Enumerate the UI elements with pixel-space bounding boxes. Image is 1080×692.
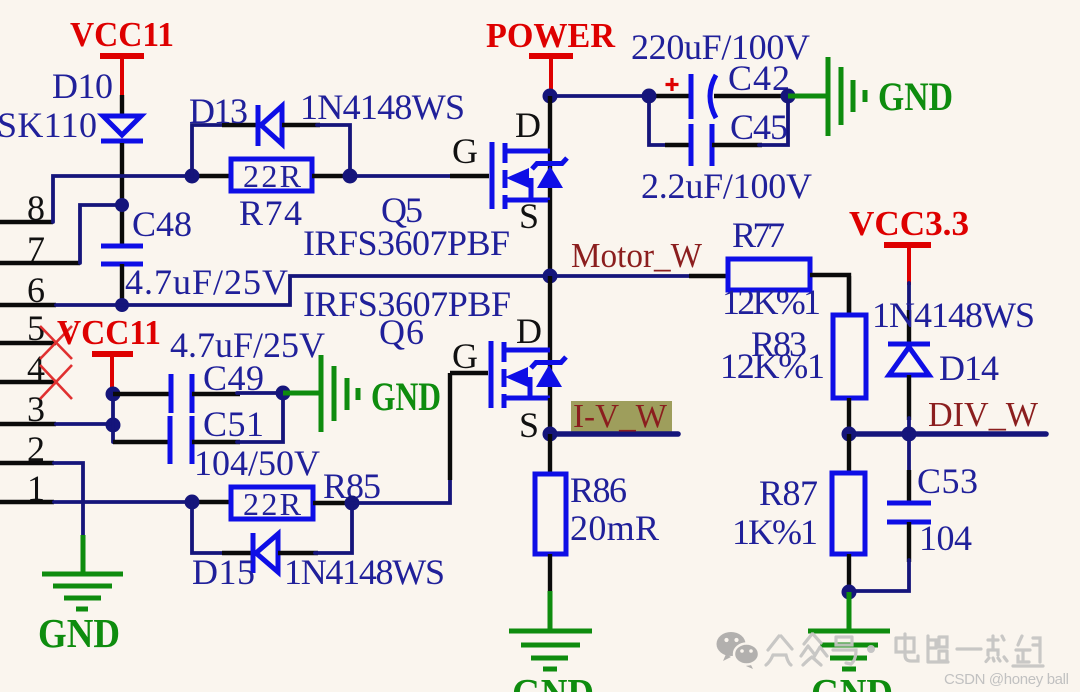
junction R85 right / D15 [345,496,360,511]
svg-text:Motor_W: Motor_W [571,236,702,275]
capacitor C45 2.2uF/100V [641,96,812,206]
svg-text:GND: GND [811,670,893,692]
svg-text:22R: 22R [243,158,302,194]
mosfet Q5 IRFS3607PBF [303,105,567,263]
svg-text:C42: C42 [728,58,790,98]
svg-text:VCC3.3: VCC3.3 [849,204,969,243]
diode D14 1N4148WS [872,283,1035,434]
svg-text:C53: C53 [917,461,978,501]
power symbol VCC11 top [70,15,174,95]
net label DIV_W [849,395,1046,434]
svg-text:104: 104 [919,518,972,558]
svg-text:GND: GND [512,670,594,692]
wire R74 junction to Q5 gate [350,174,489,178]
svg-text:CSDN @honey ball: CSDN @honey ball [944,671,1069,688]
wire POWER rail to C42 [550,94,691,98]
wire Q5 source to Motor node [548,200,552,276]
wire pin2 to ground [54,463,83,574]
resistor R86 20mR [535,470,659,554]
junction pin3 / C51 [106,418,121,433]
svg-text:4.7uF/25V: 4.7uF/25V [125,262,288,302]
resistor R77 12K%1 [722,215,849,322]
svg-text:7: 7 [27,229,45,269]
svg-text:GND: GND [371,374,441,419]
svg-text:POWER: POWER [486,16,616,55]
power symbol POWER [486,16,616,95]
junction POWER [543,89,558,104]
junction R85 left / D15 [185,495,200,510]
wire to ground bottom right [847,592,852,631]
junction boot rail / D13 left [185,169,200,184]
watermark wechat icon [717,632,760,669]
connector pin 8 [0,188,53,228]
resistor R87 1K%1 [732,434,865,592]
mosfet Q6 IRFS3607PBF [303,284,566,445]
svg-text:DIV_W: DIV_W [928,395,1038,434]
svg-text:C49: C49 [203,358,264,398]
connector pin 6 [0,270,56,310]
junction C48 top [115,198,129,212]
connector pin 5 [0,308,56,348]
svg-text:104/50V: 104/50V [194,443,320,483]
svg-text:D: D [516,311,542,351]
connector pin 3 [0,389,56,429]
svg-text:VCC11: VCC11 [57,313,161,352]
connector pin 1 [0,468,54,508]
ground GND bottom left [38,574,123,656]
junction C42 left [642,89,657,104]
ground GND bottom center [509,631,594,692]
ground GND bottom right [808,631,893,692]
power symbol VCC11 mid [57,313,161,394]
svg-text:1K%1: 1K%1 [732,512,818,552]
wire to R86 [548,434,552,474]
resistor R83 12K%1 [720,315,866,398]
svg-text:6: 6 [27,270,45,310]
wire pin3 to C51 [56,394,113,442]
svg-text:SK110: SK110 [0,105,97,145]
svg-text:1N4148WS: 1N4148WS [284,552,445,592]
svg-text:D10: D10 [52,66,113,106]
resistor R74 22R [231,158,312,233]
resistor R85 22R [231,466,381,522]
wire Q6 source to I-V node [548,398,552,434]
ground GND mid left [283,355,441,432]
junction C49/C51 right [276,386,291,401]
svg-text:S: S [519,196,539,236]
svg-text:22R: 22R [243,486,302,522]
capacitor C49 4.7uF/25V [113,325,325,413]
svg-text:12K%1: 12K%1 [720,346,825,386]
svg-text:R86: R86 [570,470,627,510]
wire R74 right to junction [312,174,350,178]
connector pin 4 [0,348,56,388]
wire R86 to ground [548,554,552,631]
junction C42 right / GND [781,89,796,104]
svg-text:D15: D15 [192,552,255,592]
svg-text:C48: C48 [132,204,192,244]
svg-text:IRFS3607PBF: IRFS3607PBF [303,284,511,324]
wire R83 to DIV node [847,398,851,434]
capacitor C51 104/50V [113,393,320,483]
ground GND top right [788,57,953,136]
wire pin7 to C48 top [80,205,118,263]
wire R85 to Q6 gate [352,373,488,503]
svg-text:D13: D13 [189,91,248,131]
junction DIV right [902,427,917,442]
svg-text:S: S [519,405,539,445]
svg-text:G: G [452,131,478,171]
wire pin8 to boot rail [53,176,192,222]
svg-text:C51: C51 [203,404,264,444]
no-connect X on pin 4 [40,365,72,399]
capacitor C53 104 [849,434,978,591]
wire pin6 to Motor node [56,276,546,305]
diode D13 1N4148WS bypass [189,87,465,176]
svg-text:20mR: 20mR [570,508,659,548]
svg-text:IRFS3607PBF: IRFS3607PBF [303,223,510,263]
junction R87/C53 bottom [842,585,857,600]
svg-text:R74: R74 [239,193,302,233]
svg-text:R77: R77 [732,215,785,255]
svg-text:I-V_W: I-V_W [573,398,668,435]
svg-text:C45: C45 [730,107,788,147]
svg-text:D14: D14 [939,348,999,388]
junction C48 bottom [115,298,129,312]
wire pin1 to R85 [54,500,231,504]
watermark dot separator [867,645,875,653]
no-connect X on pin 5 [40,326,72,359]
wire boot rail to R74 [192,174,231,178]
junction VCC11 / C49 [106,387,121,402]
net label Motor_W [550,236,728,276]
wire R85 right [313,501,352,505]
diode D15 1N4148WS bypass [192,502,445,592]
svg-text:VCC11: VCC11 [70,15,174,54]
junction DIV left [842,427,857,442]
junction Motor_W node [543,269,558,284]
svg-text:G: G [452,336,478,376]
diode D10 (SK110) [0,66,143,205]
svg-text:R87: R87 [759,473,818,513]
wire R77 to R83 [847,276,851,315]
wire Q6 drain [548,276,552,398]
svg-text:8: 8 [27,188,45,228]
connector pin 7 [0,229,80,269]
svg-text:12K%1: 12K%1 [722,282,821,322]
svg-text:GND: GND [38,610,120,656]
svg-text:1N4148WS: 1N4148WS [872,295,1035,335]
capacitor C48 4.7uF/25V [101,204,288,305]
capacitor C42 220uF/100V polarized [631,27,810,119]
svg-text:GND: GND [878,74,953,119]
wire Q5 drain [548,96,552,200]
svg-text:2.2uF/100V: 2.2uF/100V [641,166,812,206]
junction I-V_W node [543,427,558,442]
power symbol VCC3.3 [849,204,969,285]
svg-text:1N4148WS: 1N4148WS [300,87,465,127]
junction R74 right / D13 right [343,169,358,184]
svg-text:D: D [515,105,541,145]
svg-text:2: 2 [27,429,45,469]
net label I-V_W highlighted [550,398,678,435]
svg-text:1: 1 [27,468,45,508]
watermark text 公众号 · 电路一点通 [766,634,1043,666]
connector pin 2 [0,429,54,469]
